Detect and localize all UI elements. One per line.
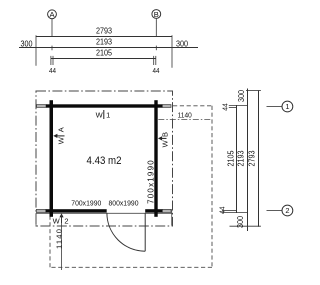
svg-text:1: 1: [106, 110, 110, 119]
svg-text:W: W: [57, 136, 66, 144]
svg-text:300: 300: [235, 216, 244, 228]
svg-text:44: 44: [218, 207, 226, 215]
svg-text:700x1990: 700x1990: [146, 159, 155, 204]
svg-text:300: 300: [176, 39, 188, 48]
svg-text:2105: 2105: [226, 150, 235, 166]
svg-text:44: 44: [153, 68, 160, 75]
svg-text:W: W: [53, 216, 61, 225]
svg-text:B: B: [154, 10, 159, 19]
svg-text:800x1990: 800x1990: [108, 198, 138, 207]
svg-text:700x1990: 700x1990: [71, 198, 101, 207]
svg-text:2105: 2105: [96, 48, 112, 57]
svg-text:W: W: [96, 110, 104, 119]
svg-text:44: 44: [221, 103, 229, 111]
svg-text:1: 1: [285, 102, 289, 111]
svg-text:2793: 2793: [247, 150, 256, 166]
svg-text:2193: 2193: [96, 37, 112, 46]
svg-text:B: B: [160, 132, 169, 137]
svg-text:2793: 2793: [96, 26, 112, 35]
svg-text:1140: 1140: [178, 112, 192, 119]
svg-text:2: 2: [285, 206, 289, 215]
svg-text:44: 44: [49, 68, 56, 75]
svg-text:2: 2: [64, 216, 68, 225]
svg-text:W: W: [160, 139, 169, 147]
svg-text:300: 300: [20, 39, 32, 48]
svg-text:2193: 2193: [236, 150, 245, 166]
svg-text:4.43 m2: 4.43 m2: [87, 155, 122, 167]
svg-text:A: A: [57, 127, 66, 132]
svg-text:1140: 1140: [55, 228, 64, 249]
svg-text:300: 300: [237, 90, 246, 102]
